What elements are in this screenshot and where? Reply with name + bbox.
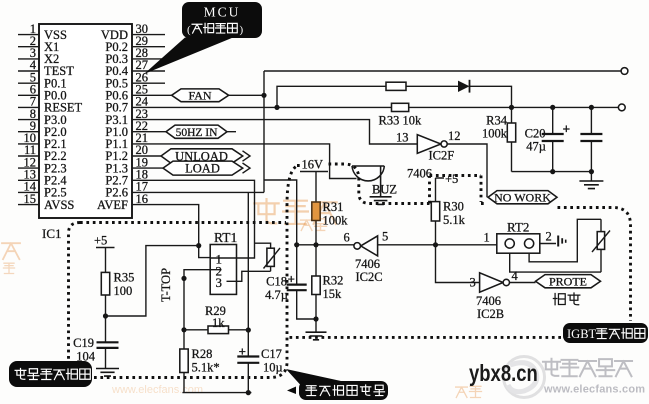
wire net P2.7 down to RT1 pin1 and thermistor top <box>132 180 271 258</box>
svg-text:(: ( <box>187 24 191 36</box>
svg-text:BUZ: BUZ <box>372 183 397 197</box>
wire RT1 pin3 to thermistor bottom <box>237 266 271 281</box>
resistor R32 15k <box>312 274 344 302</box>
resistor R29 1k <box>205 304 229 334</box>
ground under C19 <box>96 369 119 377</box>
connector RT1 <box>210 230 237 294</box>
resistor R34 100k <box>482 114 516 143</box>
svg-text:15k: 15k <box>323 287 343 301</box>
wire line B bypass branch with series resistor and diode <box>277 86 512 107</box>
capacitor C17 10u polarized <box>237 344 282 375</box>
svg-text:): ) <box>240 24 244 36</box>
svg-text:3: 3 <box>470 276 476 290</box>
svg-text:IC1: IC1 <box>42 226 62 241</box>
svg-text:7406: 7406 <box>355 257 380 271</box>
svg-text:5.1k: 5.1k <box>443 213 466 227</box>
svg-text:13: 13 <box>396 131 409 145</box>
svg-text:C19: C19 <box>73 336 94 350</box>
svg-text:www.elecfans.com: www.elecfans.com <box>543 384 645 396</box>
dotted box IGBT temperature detection outline <box>288 164 631 337</box>
thermistor for RT1 <box>264 248 281 269</box>
svg-text:ybx8.cn: ybx8.cn <box>469 361 538 386</box>
svg-text:www.elecfans.com: www.elecfans.com <box>111 384 203 396</box>
capacitor C18 4.7u polarized <box>265 272 307 303</box>
diode D on line B <box>458 80 470 93</box>
wire R35 to C19 to ground <box>105 295 107 369</box>
svg-text:3: 3 <box>216 275 223 290</box>
wire net P0.7 row with R33 to node512 and right terminal <box>132 104 625 111</box>
flag NO WORK <box>488 190 557 204</box>
buzzer BUZ <box>352 166 397 197</box>
svg-text:12: 12 <box>448 129 461 143</box>
label IGBT temperature detection black tag <box>563 323 648 343</box>
MCU right pins 30-16 with stubs <box>97 22 165 212</box>
svg-text:FAN: FAN <box>188 89 211 103</box>
svg-text:R34: R34 <box>486 114 508 128</box>
svg-text:IC2F: IC2F <box>429 149 455 163</box>
decorative orange watermark fragment left edge <box>2 243 20 273</box>
wire IC2F output to NO WORK flag <box>447 144 487 197</box>
svg-text:50HZ IN: 50HZ IN <box>176 127 219 139</box>
svg-text:R28: R28 <box>192 347 213 361</box>
svg-text:R32: R32 <box>323 274 344 288</box>
wire R34 leads <box>511 107 513 171</box>
svg-text:IC2B: IC2B <box>477 307 504 321</box>
capacitor C19 104 <box>73 336 118 364</box>
flag UNLOAD <box>161 149 250 164</box>
wire net P1.0 to 50HZ flag <box>132 131 236 133</box>
flag LOAD <box>163 161 250 175</box>
svg-text:10µ: 10µ <box>263 361 283 375</box>
capacitor C20 47u polarized <box>525 122 571 154</box>
jack symbol after RT2 pin2 <box>558 236 566 247</box>
capacitor filter right <box>580 134 602 141</box>
svg-text:C18: C18 <box>266 275 287 289</box>
connector RT2 <box>484 220 552 254</box>
wire net P3.1 to IC2F input <box>132 120 417 144</box>
svg-text:+5: +5 <box>94 234 107 248</box>
svg-text:5.1k*: 5.1k* <box>192 361 220 375</box>
wire C17 leads <box>247 330 249 393</box>
resistor unlabeled series on line B <box>386 82 406 90</box>
wire RT2 pin drops to remote thermistor <box>510 219 601 272</box>
svg-text:5: 5 <box>382 230 388 244</box>
svg-text:1: 1 <box>484 231 490 245</box>
wire 16V feed to R31 <box>300 158 328 203</box>
wire RT2 pin2 to jack <box>540 243 556 245</box>
wire IC2B output to PROTE flag <box>509 282 535 284</box>
svg-text:16V: 16V <box>302 158 324 172</box>
wire R31 bottom lead <box>315 221 317 245</box>
svg-text:IC2C: IC2C <box>356 270 383 284</box>
MCU left pins 1-15 with stubs <box>18 22 83 212</box>
wire R29 leads <box>184 329 248 331</box>
svg-text:4: 4 <box>512 269 519 283</box>
wire net P1.3 to LOAD flag <box>132 167 163 169</box>
thermistor for RT2 <box>592 231 610 253</box>
ground under buzzer <box>370 197 392 205</box>
watermark ybx8.cn <box>469 361 538 386</box>
inverter IC2B 7406 <box>470 269 519 321</box>
svg-text:PROTE: PROTE <box>549 274 587 288</box>
svg-text:MCU: MCU <box>204 5 241 20</box>
svg-text:100k: 100k <box>482 127 508 141</box>
wire net P1.2 to UNLOAD flag <box>132 155 161 157</box>
svg-text:AVSS: AVSS <box>44 198 74 212</box>
wire R32 top lead <box>315 245 317 276</box>
MCU callout label (microprocessor) <box>144 2 262 74</box>
watermark elecfans chinese <box>543 359 645 396</box>
wire IC2C input line to RT2 pin1 <box>378 242 497 247</box>
flag FAN <box>172 89 229 103</box>
wire R35 bottom link to RT1 node <box>103 246 199 319</box>
wire RT1 pin2 T-TOP divider column <box>181 270 251 396</box>
watermark elecfans logo swirl <box>504 357 545 398</box>
svg-text:7406: 7406 <box>476 294 501 308</box>
wire filter cap leads <box>590 107 592 171</box>
wire IC2C output line left run <box>297 242 354 247</box>
ground under R32/C18 <box>306 332 327 340</box>
inverter IC2F 7406 <box>396 129 461 181</box>
svg-text:15: 15 <box>24 192 37 206</box>
svg-text:4.7µ: 4.7µ <box>265 288 288 302</box>
svg-text:R35: R35 <box>114 271 135 285</box>
resistor R30 5.1k <box>431 200 465 228</box>
svg-text:1k: 1k <box>212 316 225 330</box>
decorative orange watermark fragment bottom <box>111 384 481 397</box>
svg-text:NO WORK: NO WORK <box>494 190 551 204</box>
wire supply line A to right terminal <box>264 68 628 75</box>
svg-text:LOAD: LOAD <box>185 162 220 176</box>
svg-text:2: 2 <box>546 230 552 244</box>
dotted box stove temperature detection outline <box>69 167 297 378</box>
flag PROTE <box>536 274 601 288</box>
resistor R31 100k highlighted <box>312 200 348 228</box>
decorative orange watermark fragment over R31 area <box>254 199 336 230</box>
svg-text:R33 10k: R33 10k <box>379 114 422 128</box>
svg-text:R30: R30 <box>443 200 464 214</box>
svg-text:+: + <box>239 344 246 359</box>
resistor R28 5.1k* <box>180 347 220 375</box>
inverter IC2C 7406 pointing left <box>344 230 389 285</box>
label protect under PROTE <box>553 293 579 305</box>
svg-text:R31: R31 <box>323 200 344 214</box>
svg-text:100k: 100k <box>323 214 349 228</box>
wire +5 feed to R30 <box>436 171 463 202</box>
svg-text:+: + <box>563 122 571 137</box>
wire ground rail under R34 C20 <box>512 169 595 181</box>
svg-text:C17: C17 <box>261 347 282 361</box>
wire net AVEF down to RT1 pin1 node <box>132 205 210 258</box>
svg-text:47µ: 47µ <box>526 140 546 154</box>
svg-text:AVEF: AVEF <box>97 198 128 212</box>
resistor R33 10k <box>379 103 422 127</box>
ground under C20 rail <box>579 181 603 189</box>
svg-text:C20: C20 <box>525 127 546 141</box>
svg-text:+: + <box>288 272 295 287</box>
svg-text:RT1: RT1 <box>214 230 237 245</box>
svg-text:RT2: RT2 <box>507 220 529 235</box>
svg-text:6: 6 <box>344 231 350 245</box>
wire net P0.6 FAN line with junction at x264 <box>132 93 267 98</box>
wire C20 leads <box>552 107 554 171</box>
svg-text:7406: 7406 <box>407 167 432 181</box>
svg-text:100: 100 <box>114 284 133 298</box>
label T-TOP rotated <box>159 268 173 302</box>
label temperature detection circuit black tag with pointer <box>286 369 388 400</box>
wire net P2.6 down to R29/C17 node <box>132 192 264 332</box>
wire R30 bottom lead <box>435 221 437 245</box>
label stove temperature detection black tag <box>9 361 92 387</box>
wire node to IC2B input <box>436 245 480 283</box>
wire vertical riser x264 from line A down to IC2C output net <box>264 71 297 245</box>
svg-text:IGBT: IGBT <box>567 327 597 341</box>
wire net P1.1 buzzer drive <box>132 144 357 179</box>
flag 50HZ IN <box>166 125 227 139</box>
MCU IC1 chip body <box>39 24 132 241</box>
wire +5 feed to R35 <box>94 234 115 273</box>
svg-text:16: 16 <box>136 192 149 206</box>
wire C18 branch from IC2C output node to ground node <box>294 242 319 332</box>
svg-text:T-TOP: T-TOP <box>159 268 173 302</box>
resistor R35 100 <box>101 271 134 299</box>
